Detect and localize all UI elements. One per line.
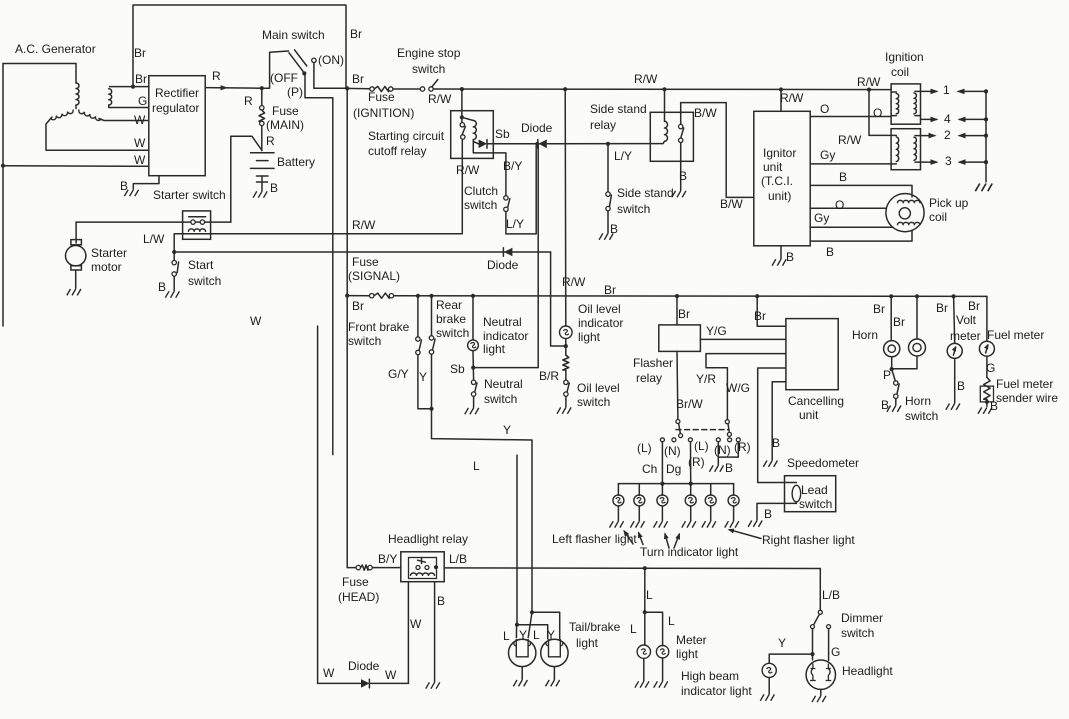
svg-text:Volt: Volt: [956, 313, 977, 327]
svg-text:W: W: [134, 153, 146, 167]
svg-text:G: G: [831, 645, 840, 659]
svg-text:switch: switch: [577, 395, 610, 409]
svg-text:B: B: [839, 170, 847, 184]
svg-text:(P): (P): [287, 85, 303, 99]
svg-text:Ignition: Ignition: [885, 50, 924, 64]
svg-text:Neutral: Neutral: [484, 377, 523, 391]
svg-text:G: G: [986, 361, 995, 375]
svg-text:Main switch: Main switch: [262, 28, 325, 42]
svg-text:High beam: High beam: [681, 669, 739, 683]
svg-text:Right flasher light: Right flasher light: [762, 533, 855, 547]
svg-text:Dg: Dg: [666, 462, 681, 476]
svg-text:L: L: [630, 622, 637, 636]
svg-text:Engine stop: Engine stop: [397, 46, 461, 60]
svg-text:(T.C.I.: (T.C.I.: [761, 174, 793, 188]
svg-text:B: B: [957, 379, 965, 393]
svg-text:switch: switch: [484, 392, 517, 406]
svg-text:Sb: Sb: [450, 362, 465, 376]
svg-text:B: B: [786, 250, 794, 264]
svg-text:W: W: [410, 617, 422, 631]
svg-text:L: L: [668, 614, 675, 628]
svg-text:P: P: [883, 368, 891, 382]
svg-text:(L): (L): [637, 441, 652, 455]
svg-text:W/G: W/G: [726, 381, 750, 395]
svg-text:R/W: R/W: [838, 133, 862, 147]
svg-text:light: light: [676, 647, 699, 661]
svg-text:switch: switch: [464, 198, 497, 212]
svg-text:Oil level: Oil level: [578, 302, 621, 316]
svg-text:motor: motor: [91, 260, 122, 274]
svg-text:1: 1: [943, 83, 950, 97]
svg-text:Flasher: Flasher: [633, 356, 673, 370]
svg-text:3: 3: [945, 154, 952, 168]
svg-text:O: O: [873, 106, 882, 120]
svg-text:L: L: [533, 628, 540, 642]
svg-text:Br: Br: [134, 46, 146, 60]
svg-text:B: B: [826, 245, 834, 259]
svg-text:L/Y: L/Y: [614, 149, 632, 163]
svg-text:Diode: Diode: [487, 258, 519, 272]
svg-text:Ch: Ch: [642, 462, 657, 476]
svg-text:B: B: [120, 179, 128, 193]
svg-text:R: R: [212, 69, 221, 83]
svg-text:Fuse: Fuse: [272, 104, 299, 118]
svg-text:unit: unit: [763, 160, 783, 174]
svg-text:Y: Y: [547, 628, 555, 642]
svg-text:Speedometer: Speedometer: [787, 456, 859, 470]
svg-text:Lead: Lead: [801, 483, 828, 497]
svg-text:L/B: L/B: [449, 552, 467, 566]
svg-text:switch: switch: [841, 626, 874, 640]
svg-text:light: light: [578, 330, 601, 344]
svg-text:Starter switch: Starter switch: [153, 188, 226, 202]
svg-text:Side stand: Side stand: [617, 186, 674, 200]
svg-text:Y: Y: [778, 636, 786, 650]
svg-text:L/W: L/W: [143, 232, 165, 246]
svg-text:B/W: B/W: [694, 106, 717, 120]
svg-text:O: O: [835, 198, 844, 212]
svg-text:R/W: R/W: [857, 75, 881, 89]
svg-text:Y: Y: [419, 370, 427, 384]
svg-text:R/W: R/W: [562, 275, 586, 289]
svg-text:Clutch: Clutch: [464, 184, 498, 198]
svg-text:Fuse: Fuse: [352, 255, 379, 269]
svg-text:indicator light: indicator light: [681, 684, 752, 698]
svg-text:Br: Br: [352, 72, 364, 86]
svg-text:L/B: L/B: [822, 588, 840, 602]
svg-text:Start: Start: [188, 258, 214, 272]
svg-text:indicator: indicator: [578, 316, 623, 330]
svg-text:W: W: [250, 314, 262, 328]
svg-text:Turn indicator light: Turn indicator light: [640, 545, 739, 559]
svg-text:light: light: [483, 342, 506, 356]
svg-text:O: O: [820, 102, 829, 116]
svg-text:Br: Br: [968, 299, 980, 313]
svg-text:coil: coil: [891, 65, 909, 79]
svg-text:B: B: [679, 169, 687, 183]
svg-text:W: W: [134, 113, 146, 127]
svg-text:Br: Br: [893, 315, 905, 329]
svg-text:switch: switch: [188, 274, 221, 288]
svg-text:Dimmer: Dimmer: [841, 611, 883, 625]
svg-text:B: B: [158, 280, 166, 294]
svg-text:meter: meter: [950, 329, 981, 343]
svg-text:R/W: R/W: [780, 91, 804, 105]
svg-text:B: B: [725, 461, 733, 475]
svg-text:unit): unit): [768, 189, 791, 203]
svg-text:light: light: [576, 636, 599, 650]
svg-text:indicator: indicator: [483, 329, 528, 343]
svg-text:2: 2: [944, 128, 951, 142]
svg-text:(IGNITION): (IGNITION): [353, 106, 414, 120]
svg-text:Y/R: Y/R: [696, 372, 716, 386]
svg-text:W: W: [323, 666, 335, 680]
svg-text:Diode: Diode: [348, 659, 380, 673]
svg-text:Pick up: Pick up: [929, 196, 969, 210]
svg-text:R/W: R/W: [634, 72, 658, 86]
svg-text:(SIGNAL): (SIGNAL): [348, 269, 400, 283]
svg-text:unit: unit: [799, 408, 819, 422]
svg-text:W: W: [385, 668, 397, 682]
svg-text:B/Y: B/Y: [503, 159, 522, 173]
svg-text:R/W: R/W: [428, 92, 452, 106]
svg-text:switch: switch: [436, 326, 469, 340]
svg-text:Br: Br: [350, 27, 362, 41]
svg-text:L: L: [473, 459, 480, 473]
svg-text:Y: Y: [503, 423, 511, 437]
svg-text:regulator: regulator: [152, 101, 199, 115]
svg-text:(R): (R): [734, 440, 751, 454]
svg-text:Battery: Battery: [277, 155, 315, 169]
svg-text:switch: switch: [348, 334, 381, 348]
svg-text:(N): (N): [714, 443, 731, 457]
svg-text:L: L: [503, 629, 510, 643]
svg-text:switch: switch: [412, 62, 445, 76]
svg-text:A.C. Generator: A.C. Generator: [15, 42, 96, 56]
svg-text:B: B: [437, 594, 445, 608]
svg-text:(MAIN): (MAIN): [266, 118, 304, 132]
svg-text:B/Y: B/Y: [378, 552, 397, 566]
svg-text:Br: Br: [352, 299, 364, 313]
svg-text:Br/W: Br/W: [676, 397, 703, 411]
svg-text:L: L: [646, 588, 653, 602]
svg-text:relay: relay: [590, 118, 616, 132]
svg-text:(ON): (ON): [318, 53, 344, 67]
svg-text:Ignitor: Ignitor: [763, 146, 796, 160]
svg-text:Front brake: Front brake: [348, 320, 410, 334]
svg-text:B: B: [881, 398, 889, 412]
svg-text:Starter: Starter: [91, 246, 127, 260]
svg-text:Fuel meter: Fuel meter: [996, 377, 1053, 391]
svg-text:Rear: Rear: [436, 298, 462, 312]
svg-text:Tail/brake: Tail/brake: [569, 620, 621, 634]
svg-text:B: B: [270, 181, 278, 195]
svg-text:B: B: [772, 436, 780, 450]
svg-text:R/W: R/W: [456, 163, 480, 177]
svg-text:Fuse: Fuse: [368, 90, 395, 104]
svg-text:Br: Br: [135, 72, 147, 86]
svg-text:switch: switch: [799, 497, 832, 511]
svg-text:Fuel meter: Fuel meter: [987, 328, 1044, 342]
svg-text:W: W: [134, 136, 146, 150]
svg-text:B/R: B/R: [539, 369, 559, 383]
svg-text:Meter: Meter: [676, 633, 707, 647]
svg-text:Y: Y: [519, 628, 527, 642]
svg-text:Diode: Diode: [521, 121, 553, 135]
svg-text:L/Y: L/Y: [506, 217, 524, 231]
svg-text:Y/G: Y/G: [706, 324, 727, 338]
svg-text:cutoff relay: cutoff relay: [368, 144, 426, 158]
svg-text:Rectifier: Rectifier: [155, 86, 199, 100]
svg-text:relay: relay: [636, 371, 662, 385]
svg-text:Neutral: Neutral: [483, 315, 522, 329]
svg-text:R/W: R/W: [352, 218, 376, 232]
svg-text:(HEAD): (HEAD): [338, 590, 379, 604]
svg-text:R: R: [244, 94, 253, 108]
svg-text:Br: Br: [754, 309, 766, 323]
svg-text:(R): (R): [688, 455, 705, 469]
svg-text:Br: Br: [936, 301, 948, 315]
svg-text:sender wire: sender wire: [996, 391, 1058, 405]
svg-text:4: 4: [944, 112, 951, 126]
svg-text:coil: coil: [929, 210, 947, 224]
svg-text:Gy: Gy: [814, 211, 829, 225]
svg-text:(OFF: (OFF: [270, 71, 298, 85]
svg-text:Br: Br: [678, 307, 690, 321]
svg-text:B: B: [610, 222, 618, 236]
svg-text:B: B: [990, 399, 998, 413]
svg-text:Br: Br: [873, 302, 885, 316]
svg-text:Horn: Horn: [852, 328, 878, 342]
svg-text:Starting circuit: Starting circuit: [368, 129, 445, 143]
svg-text:B: B: [764, 507, 772, 521]
svg-text:Gy: Gy: [820, 148, 835, 162]
svg-text:G/Y: G/Y: [388, 367, 409, 381]
svg-text:R: R: [266, 134, 275, 148]
svg-text:brake: brake: [436, 312, 466, 326]
svg-text:Oil level: Oil level: [577, 381, 620, 395]
svg-text:Headlight relay: Headlight relay: [388, 532, 468, 546]
svg-text:Left flasher light: Left flasher light: [552, 532, 637, 546]
svg-text:B/W: B/W: [720, 197, 743, 211]
svg-text:Fuse: Fuse: [342, 575, 369, 589]
svg-text:Headlight: Headlight: [842, 664, 893, 678]
svg-text:Br: Br: [604, 283, 616, 297]
svg-text:(L): (L): [694, 439, 709, 453]
svg-text:(N): (N): [664, 444, 681, 458]
svg-text:G: G: [138, 94, 147, 108]
svg-text:switch: switch: [617, 202, 650, 216]
svg-text:Horn: Horn: [905, 394, 931, 408]
svg-text:Sb: Sb: [495, 127, 510, 141]
svg-text:switch: switch: [905, 409, 938, 423]
svg-text:Side stand: Side stand: [590, 102, 647, 116]
svg-text:Cancelling: Cancelling: [788, 394, 844, 408]
